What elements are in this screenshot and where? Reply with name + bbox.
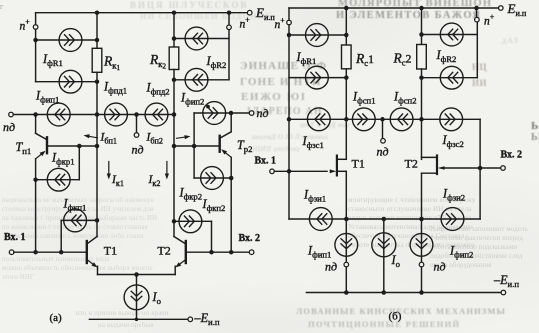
svg-text:Iбп1: Iбп1 <box>100 132 118 146</box>
svg-text:Iфкп1: Iфкп1 <box>63 197 87 213</box>
svg-text:Iо: Iо <box>391 253 401 269</box>
svg-text:пд: пд <box>132 143 144 157</box>
svg-text:Вх. 2: Вх. 2 <box>239 233 261 244</box>
svg-text:пд: пд <box>325 260 337 274</box>
svg-text:Iфзи2: Iфзи2 <box>442 187 465 203</box>
svg-text:Iфзс1: Iфзс1 <box>302 134 324 150</box>
svg-text:Rк1: Rк1 <box>103 54 120 72</box>
svg-text:Iк2: Iк2 <box>148 174 161 188</box>
svg-text:IфR2: IфR2 <box>436 48 457 64</box>
svg-text:n+: n+ <box>20 18 31 33</box>
svg-text:Iфсп2: Iфсп2 <box>393 90 417 106</box>
svg-text:Iфип2: Iфип2 <box>180 91 204 107</box>
svg-text:пд: пд <box>434 260 446 274</box>
svg-text:n+: n+ <box>275 16 286 31</box>
svg-text:n+: n+ <box>240 16 251 31</box>
svg-text:Iфип1: Iфип1 <box>307 244 331 260</box>
svg-text:Вх. 1: Вх. 1 <box>4 232 26 243</box>
svg-text:Т2: Т2 <box>405 157 418 171</box>
svg-text:пд: пд <box>3 120 15 134</box>
svg-text:Iфкр1: Iфкр1 <box>51 151 75 167</box>
svg-text:Т2: Т2 <box>157 244 170 258</box>
svg-text:пд: пд <box>257 106 269 120</box>
svg-text:Iфпд2: Iфпд2 <box>146 81 170 97</box>
svg-text:Тп1: Тп1 <box>16 140 32 156</box>
svg-text:Iфзи1: Iфзи1 <box>303 188 326 204</box>
svg-text:Rс1: Rс1 <box>355 51 374 68</box>
svg-text:Iфкп2: Iфкп2 <box>202 197 226 213</box>
svg-text:Iк1: Iк1 <box>111 174 124 188</box>
svg-text:–Еи.п: –Еи.п <box>493 273 519 289</box>
svg-text:Iфип1: Iфип1 <box>35 89 59 105</box>
svg-text:Iо: Iо <box>152 290 162 306</box>
svg-text:Еи.п: Еи.п <box>507 1 527 18</box>
svg-text:Iфип2: Iфип2 <box>449 244 473 260</box>
svg-text:Iфсп1: Iфсп1 <box>352 90 376 106</box>
svg-text:пд: пд <box>377 145 389 159</box>
svg-text:Т1: Т1 <box>104 244 117 258</box>
svg-text:Т1: Т1 <box>352 157 365 171</box>
svg-text:Тр2: Тр2 <box>237 138 252 154</box>
svg-text:Еи.п: Еи.п <box>255 5 275 22</box>
svg-text:Iфкр2: Iфкр2 <box>179 186 203 202</box>
svg-text:IфR1: IфR1 <box>42 52 63 68</box>
svg-text:IфR2: IфR2 <box>206 54 227 70</box>
svg-text:Iфзс2: Iфзс2 <box>442 133 464 149</box>
svg-text:Вх. 2: Вх. 2 <box>501 150 523 161</box>
svg-text:Iфпд1: Iфпд1 <box>103 80 127 96</box>
svg-text:IфR1: IфR1 <box>296 50 317 66</box>
svg-text:–Еи.п: –Еи.п <box>194 311 220 327</box>
svg-text:n+: n+ <box>484 13 495 28</box>
svg-text:Rс2: Rс2 <box>393 51 412 68</box>
svg-text:Вх. 1: Вх. 1 <box>255 156 277 167</box>
svg-text:Iбп2: Iбп2 <box>146 132 164 146</box>
svg-text:Rк2: Rк2 <box>149 52 166 70</box>
svg-text:(б): (б) <box>389 311 402 323</box>
svg-text:(а): (а) <box>50 312 63 324</box>
